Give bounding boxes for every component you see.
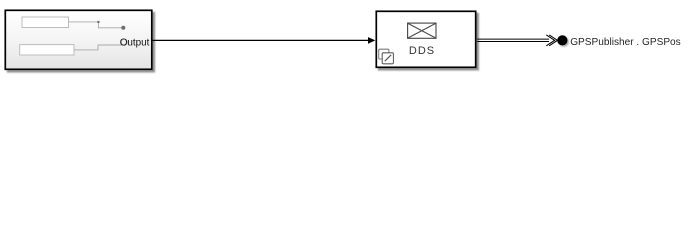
- arrowhead into DDS block: [368, 37, 375, 44]
- open chevron arrowhead outer: [549, 35, 557, 46]
- envelope icon body: [408, 23, 436, 38]
- envelope icon diagonal 2: [408, 23, 436, 38]
- preview wire 1 end dot: [121, 26, 125, 30]
- open chevron arrowhead inner: [546, 35, 554, 46]
- svg-text:DDS: DDS: [409, 45, 435, 57]
- preview block rectangle 1: [22, 17, 69, 28]
- envelope icon diagonal 1: [408, 23, 436, 38]
- badge back square: [379, 49, 389, 59]
- preview wire 1 junction square: [97, 21, 99, 23]
- svg-text:Output: Output: [120, 37, 150, 48]
- DDS block: [376, 11, 475, 67]
- preview outport circle: [121, 39, 127, 45]
- double line (topic connection) lower: [477, 41, 549, 43]
- double line (topic connection) upper: [477, 38, 549, 40]
- subsystem block (source, with content preview): [5, 10, 152, 69]
- preview wire 1: [69, 22, 122, 28]
- preview block rectangle 2: [20, 45, 74, 55]
- preview wire 2: [74, 45, 122, 50]
- svg-text:GPSPublisher . GPSPos: GPSPublisher . GPSPos: [570, 37, 681, 48]
- topic terminal dot: [557, 35, 567, 45]
- badge pencil diagonal: [385, 55, 391, 61]
- badge front square: [382, 53, 393, 64]
- wire: subsystem to DDS block: [153, 39, 370, 41]
